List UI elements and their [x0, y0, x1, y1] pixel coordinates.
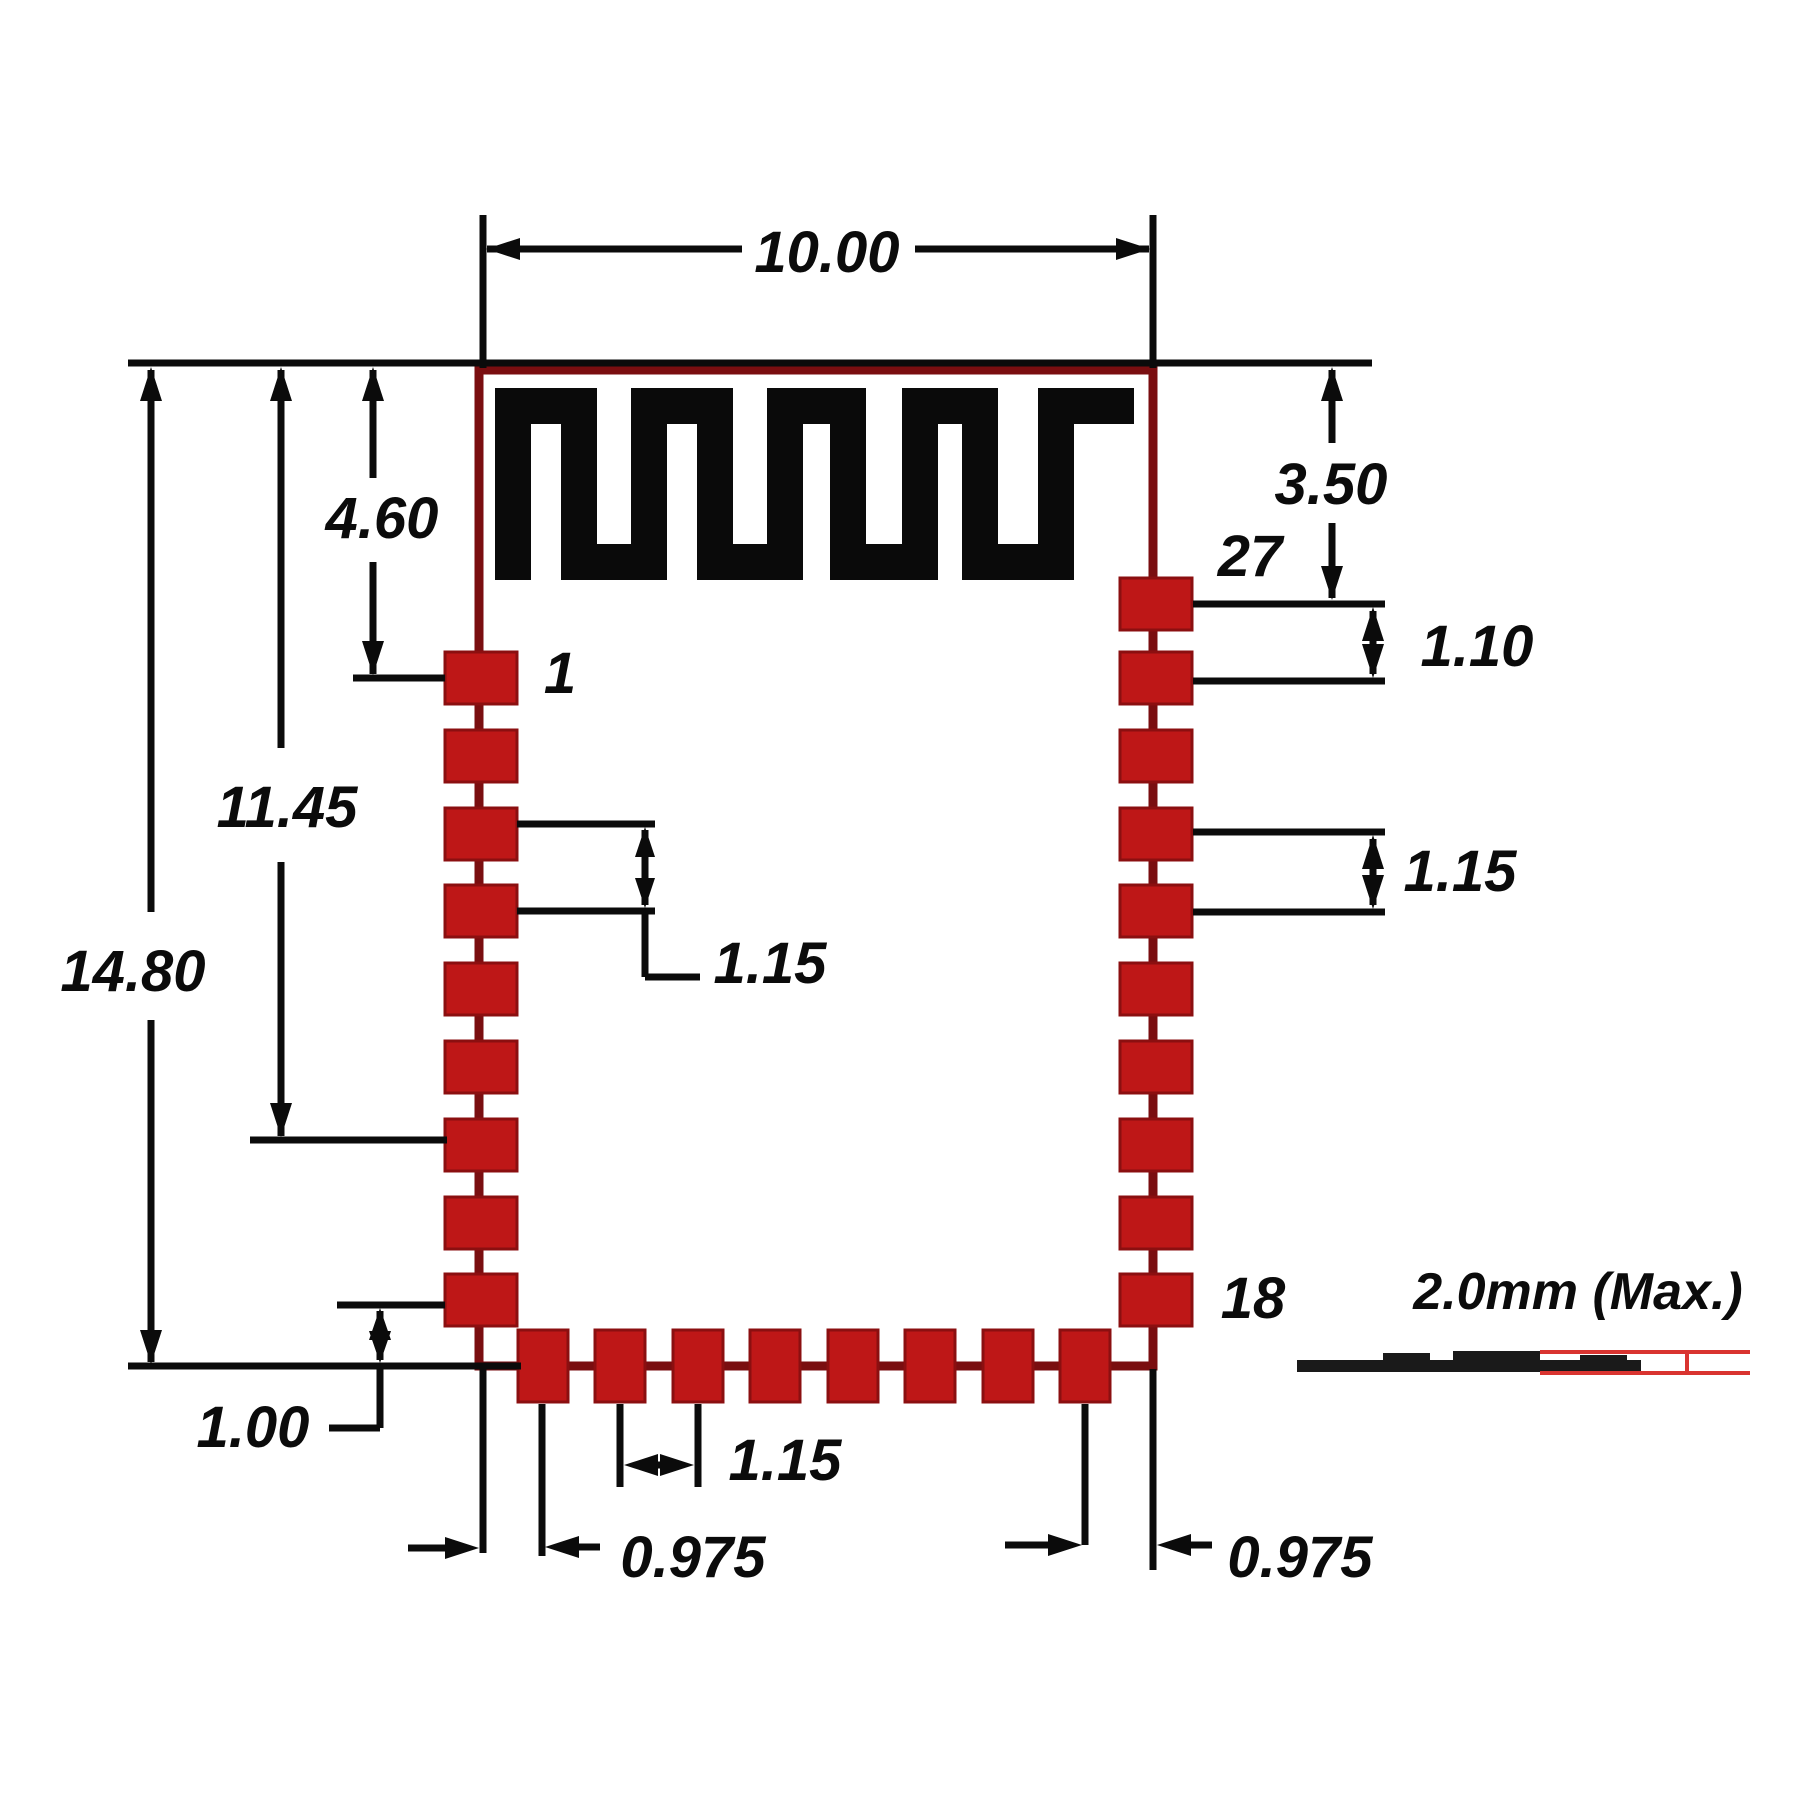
1.15 left dim lines [517, 821, 655, 828]
svg-text:11.45: 11.45 [217, 775, 359, 840]
pad 24 [1120, 808, 1192, 860]
svg-text:1.10: 1.10 [1421, 614, 1534, 679]
1.15 bottom ext lines [617, 1404, 624, 1487]
1.15 bottom left arrow [624, 1454, 658, 1476]
1.10 up arrow [1362, 607, 1384, 641]
pad 4 [445, 885, 517, 937]
pad 12 [673, 1330, 723, 1402]
pad 23 [1120, 885, 1192, 937]
pad 27 [1120, 578, 1192, 630]
10.00 left arrow [486, 238, 520, 260]
profile red outline bottom [1540, 1371, 1750, 1375]
dimension graphics [128, 215, 1385, 1570]
3.50 bottom arrow [1321, 566, 1343, 600]
top extension line [128, 360, 1372, 367]
svg-text:1.00: 1.00 [197, 1395, 310, 1460]
svg-text:2.0mm (Max.): 2.0mm (Max.) [1412, 1263, 1742, 1321]
1.15 right dim lines [1193, 829, 1385, 836]
0.975 right right-arrow [1048, 1534, 1082, 1556]
pad 10 [518, 1330, 568, 1402]
4.60 attach line [353, 675, 445, 682]
tick above right edge [1150, 215, 1157, 368]
pad 7 [445, 1119, 517, 1171]
profile red outline top [1540, 1350, 1750, 1354]
0.975 left arrows shafts [408, 1545, 452, 1552]
pad 17 [1060, 1330, 1110, 1402]
pad17 center extension [1082, 1404, 1089, 1545]
svg-text:14.80: 14.80 [60, 939, 205, 1004]
11.45 top arrow [270, 367, 292, 401]
0.975 right arrow shafts [1005, 1542, 1048, 1549]
11.45 attach line [250, 1137, 447, 1144]
pad 9 [445, 1274, 517, 1326]
left pads (pins 1-9) [445, 652, 517, 1326]
pad 25 [1120, 730, 1192, 782]
pad 16 [983, 1330, 1033, 1402]
1.00 down arrow [369, 1331, 391, 1363]
profile red divider [1685, 1352, 1689, 1373]
arrowheads [140, 238, 1384, 1559]
right pads (pins 27 top down to 18) [1120, 578, 1192, 1326]
svg-text:18: 18 [1221, 1266, 1286, 1331]
1.00 up arrow [369, 1308, 391, 1340]
profile step 1 [1383, 1353, 1430, 1361]
svg-text:3.50: 3.50 [1275, 452, 1388, 517]
pad 18 [1120, 1274, 1192, 1326]
14.80 bottom arrow [140, 1330, 162, 1364]
svg-text:1.15: 1.15 [714, 931, 828, 996]
14.80 dim line [148, 370, 155, 912]
14.80 top arrow [140, 367, 162, 401]
svg-text:1: 1 [544, 641, 576, 706]
pad 26 [1120, 652, 1192, 704]
pad 20 [1120, 1119, 1192, 1171]
pad 8 [445, 1197, 517, 1249]
svg-text:0.975: 0.975 [1227, 1525, 1373, 1590]
pad 15 [905, 1330, 955, 1402]
1.15 right up arrow [1362, 835, 1384, 869]
pad10 center extension [539, 1404, 546, 1556]
tick above left edge [480, 215, 487, 368]
svg-text:0.975: 0.975 [620, 1525, 766, 1590]
1.15 bottom right arrow [660, 1454, 694, 1476]
right corner extension [1150, 1369, 1157, 1570]
svg-text:1.15: 1.15 [1404, 839, 1518, 904]
bottom extension line [128, 1363, 521, 1370]
3.50 dim line [1329, 370, 1336, 443]
pad 1 [445, 652, 517, 704]
10.00 dim line [487, 246, 742, 253]
11.45 dim line [278, 370, 285, 748]
pad 14 [828, 1330, 878, 1402]
pad 3 [445, 808, 517, 860]
profile bump [1580, 1355, 1627, 1361]
10.00 right arrow [1116, 238, 1150, 260]
0.975 left left-arrow [545, 1536, 579, 1558]
pad 22 [1120, 963, 1192, 1015]
4.60 top arrow [362, 367, 384, 401]
antenna meander [513, 406, 1134, 580]
bottom pads (pins 10-17) [518, 1330, 1110, 1402]
1.00 leader [377, 1366, 384, 1428]
1.15 right down arrow [1362, 875, 1384, 909]
4.60 bottom arrow [362, 641, 384, 675]
pad 5 [445, 963, 517, 1015]
pad 6 [445, 1041, 517, 1093]
1.15 left up arrow [635, 827, 655, 857]
pad 21 [1120, 1041, 1192, 1093]
1.15 left leader [642, 911, 649, 977]
pad 13 [750, 1330, 800, 1402]
left corner extension [480, 1369, 487, 1553]
pad 11 [595, 1330, 645, 1402]
0.975 right left-arrow [1157, 1534, 1191, 1556]
side profile view [1297, 1351, 1750, 1373]
4.60 dim line [370, 370, 377, 478]
1.10 attach line bottom [1193, 678, 1385, 685]
dimension labels [60, 220, 1533, 1590]
3.50 top arrow [1321, 367, 1343, 401]
module outline [479, 370, 1153, 1366]
3.50/1.10 attach line top [1193, 601, 1385, 608]
svg-text:1.15: 1.15 [729, 1428, 843, 1493]
1.00 attach line [337, 1302, 445, 1309]
profile step 2 [1453, 1351, 1540, 1361]
1.15 left down arrow [635, 878, 655, 908]
pad 19 [1120, 1197, 1192, 1249]
pad 2 [445, 730, 517, 782]
svg-text:27: 27 [1217, 524, 1285, 589]
profile pcb base [1297, 1360, 1641, 1372]
1.10 down arrow [1362, 644, 1384, 678]
svg-text:4.60: 4.60 [325, 486, 439, 551]
svg-text:10.00: 10.00 [754, 220, 899, 285]
11.45 bottom arrow [270, 1103, 292, 1137]
0.975 left right-arrow [445, 1537, 479, 1559]
